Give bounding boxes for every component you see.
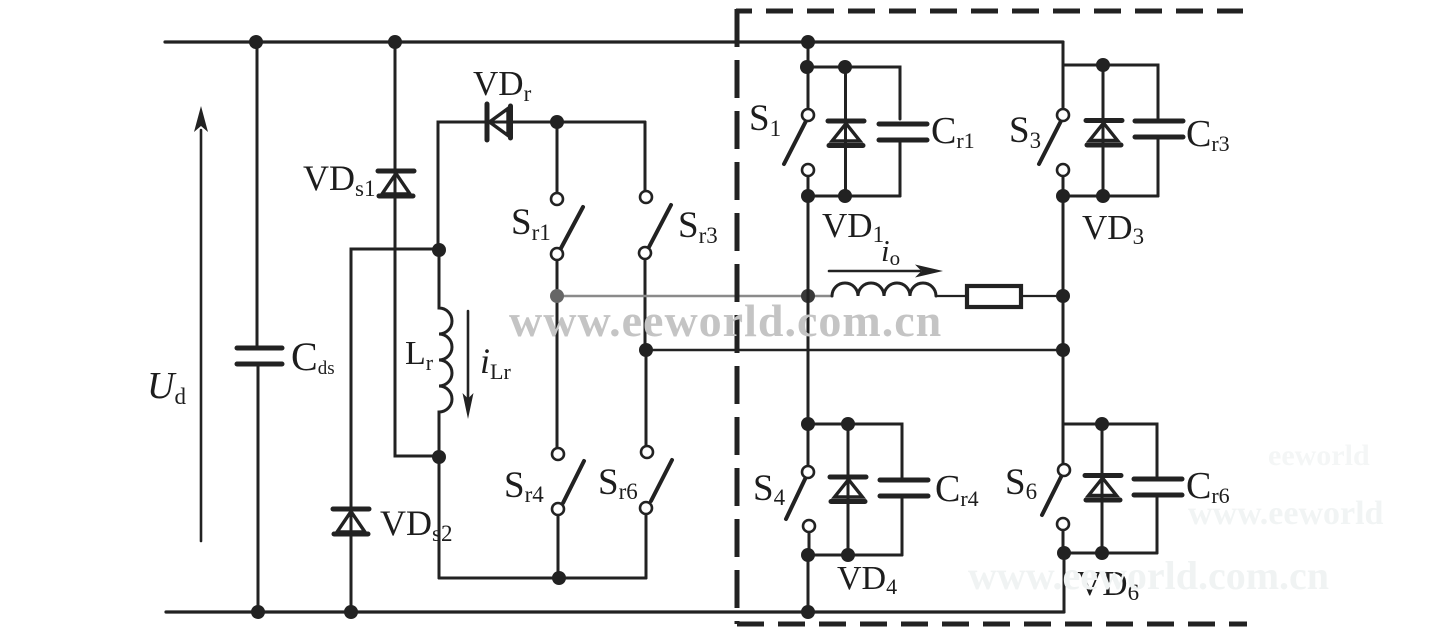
node bottom rail / VDs2 [344,605,358,619]
svg-text:Cr1: Cr1 [931,110,975,153]
svg-text:VDs1: VDs1 [303,158,375,201]
switch Sr4 [552,296,584,578]
node VD4 bottom [841,548,855,562]
node top rail / Cds [249,35,263,49]
wire S1 leg from rail [807,42,810,109]
wire Cr4 bottom [901,498,904,555]
faint watermark remnant lower right [968,439,1384,598]
node VD4 top [841,417,855,431]
node Lr top [432,243,446,257]
wire S3 to phase B node [1062,196,1065,296]
wire resonant loop bottom [439,577,646,580]
svg-text:Sr3: Sr3 [678,205,718,248]
node S4 branch top [801,417,815,431]
node VDr output / Sr1 [550,115,564,129]
wire Cr1 bottom [899,142,902,196]
svg-text:S4: S4 [753,468,786,510]
wire S4 branch bottom [808,554,902,557]
svg-text:Sr6: Sr6 [598,462,638,504]
node Sr1 output (gray) [550,289,564,303]
node S6 branch bottom [1057,546,1071,560]
node S3 branch bottom [1056,189,1070,203]
svg-text:eeworld: eeworld [1268,439,1370,472]
svg-text:S1: S1 [749,98,781,141]
wire resonant loop top left segment [438,122,645,250]
node bottom rail / Cds [251,605,265,619]
node VD1 bottom [838,189,852,203]
wire top DC rail [165,40,1063,43]
svg-text:VD4: VD4 [837,560,897,599]
svg-text:Lr: Lr [405,335,434,375]
iLr current arrow [463,311,474,419]
node phase A output [801,289,815,303]
dashed inverter box bottom edge [737,622,1247,627]
wire VDs2 branch [351,249,439,612]
svg-text:www.eeworld.com.cn: www.eeworld.com.cn [968,553,1329,598]
wire S1 to phase A node [807,196,810,296]
dashed inverter box left edge [735,9,740,624]
diode VD3 [1086,65,1122,196]
diode VD4 [830,424,866,555]
node S4 branch bottom [801,548,815,562]
node VD6 top [1095,417,1109,431]
switch S3 [1039,109,1069,196]
wire Cr3 bottom [1157,139,1160,196]
wire Cds branch lower [257,366,260,612]
inductor load [832,283,936,296]
wire VDs1 branch [395,42,439,456]
switch Sr1 [551,122,583,296]
node VD6 bottom [1095,546,1109,560]
wire coil to resistor [936,295,967,297]
wire upper output line (gray) [557,295,832,298]
svg-text:S3: S3 [1009,110,1041,153]
wire lower output line [646,349,1063,352]
diode VDs2 [333,509,369,534]
svg-text:Ud: Ud [147,365,186,409]
svg-text:VDs2: VDs2 [380,503,452,546]
switch S1 [784,109,814,196]
svg-text:www.eeworld.com.cn: www.eeworld.com.cn [509,295,942,346]
svg-text:VD3: VD3 [1082,208,1144,249]
resistor load [967,286,1021,307]
svg-text:Sr1: Sr1 [511,202,551,245]
node VD1 top [838,60,852,74]
node Lr bottom [432,450,446,464]
capacitor Cr4 [880,480,928,496]
wire S4 leg upper [807,296,810,424]
dashed inverter box top edge [736,9,1243,14]
capacitor Cr3 [1135,121,1183,137]
io current arrow [829,265,943,278]
wire S4 to bottom rail [807,555,810,612]
switch Sr3 [639,122,671,350]
switch Sr6 [640,350,672,578]
wire S6 branch bottom [1064,552,1157,555]
wire S1 branch top [808,67,900,119]
wire S3 branch top [1063,65,1158,118]
wire S4 branch top [808,424,902,478]
node top rail / S1 leg [801,35,815,49]
diode VD1 [828,67,864,196]
svg-text:Cds: Cds [291,334,335,379]
wire S6 leg upper [1062,296,1065,424]
diode VDr [487,104,511,140]
node S1 branch top [800,60,814,74]
node top rail / VDs1 [388,35,402,49]
wire resistor to S3 leg [1021,295,1063,297]
switch S4 [786,424,815,555]
svg-text:www.eeworld: www.eeworld [1188,495,1384,532]
wire S3 branch bottom [1063,195,1158,198]
wire S6 branch top [1063,424,1157,476]
svg-text:S6: S6 [1005,462,1037,504]
diode VDs1 [378,171,414,196]
capacitor Cds [237,348,282,364]
svg-text:Cr4: Cr4 [935,468,979,511]
wire S1 branch bottom [808,195,900,198]
node phase B output lower [1056,343,1070,357]
node S1 branch bottom [801,189,815,203]
svg-text:Sr4: Sr4 [504,465,544,507]
wire Cr6 bottom [1156,497,1159,553]
capacitor Cr1 [879,124,927,140]
wire bottom DC rail [166,610,1064,613]
svg-text:VDr: VDr [473,64,532,106]
node phase B upper [1056,289,1070,303]
diode VD6 [1085,424,1121,553]
capacitor Cr6 [1134,479,1182,495]
node bottom rail / S4 leg [801,605,815,619]
svg-text:VD1: VD1 [822,206,884,247]
node Sr3 output [639,343,653,357]
inductor Lr [439,250,452,457]
wire S6 to bottom rail [1063,553,1066,612]
wire Cds branch upper [256,42,259,347]
wire Lr bottom to loop bottom [438,457,441,578]
node VD3 top [1096,58,1110,72]
Ud source arrow [194,106,208,541]
node VD3 bottom [1096,189,1110,203]
svg-text:Cr3: Cr3 [1186,113,1230,156]
svg-text:iLr: iLr [480,341,511,384]
switch S6 [1042,424,1070,553]
node loop bottom / Sr4 [552,571,566,585]
wire S3 leg from rail [1062,42,1065,109]
